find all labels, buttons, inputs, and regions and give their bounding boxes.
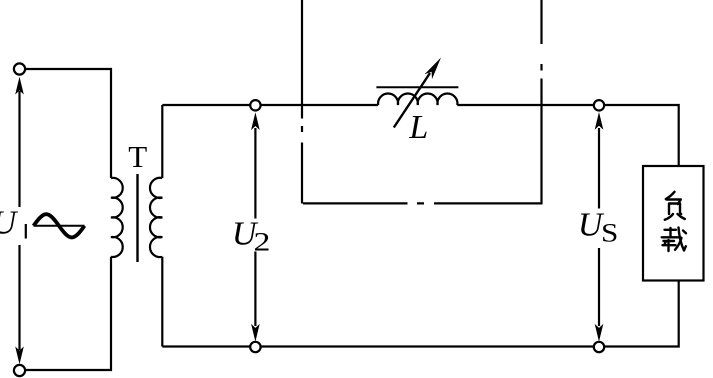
transformer core <box>136 174 138 262</box>
wire: bottom horizontal + up to load <box>162 281 678 347</box>
svg-text:L: L <box>408 109 428 146</box>
US arrowhead up <box>595 112 604 130</box>
load box <box>643 166 704 281</box>
inductor arrow line <box>394 73 430 128</box>
AC sine symbol baseline <box>34 225 85 227</box>
node circle bottom wire left <box>250 342 260 352</box>
inductor adjustable bar <box>376 86 458 88</box>
node circle bottom wire right <box>594 342 604 352</box>
U1 arrow line <box>18 91 20 350</box>
svg-text:T: T <box>128 139 147 174</box>
U2 arrowhead up <box>251 112 260 130</box>
load label char 负 <box>666 192 675 199</box>
wire: top horizontal right of inductor + down to load <box>457 105 678 166</box>
wire: secondary bottom vertical <box>161 257 163 347</box>
inductor arrowhead <box>425 58 441 80</box>
wire: top-left horizontal + down to primary coil <box>25 69 111 178</box>
wire: secondary top vertical <box>161 105 163 178</box>
US arrowhead down <box>595 324 604 342</box>
svg-text:U: U <box>0 205 19 242</box>
label U1 subscript bar <box>25 224 27 239</box>
U2 arrow line <box>254 128 256 326</box>
dash-dot enclosure bottom line <box>303 202 543 204</box>
terminal circle top-left <box>14 63 25 74</box>
U2 arrowhead down <box>251 324 260 342</box>
transformer T secondary winding <box>150 178 162 257</box>
US arrow line <box>598 128 600 326</box>
svg-text:S: S <box>601 219 618 248</box>
svg-text:2: 2 <box>254 227 271 256</box>
AC sine symbol wave <box>34 214 85 237</box>
transformer T primary winding <box>111 178 123 257</box>
inductor L winding <box>378 94 457 105</box>
node circle top wire right <box>594 100 604 110</box>
dash-dot enclosure left line <box>301 0 303 204</box>
node circle top wire left <box>250 100 260 110</box>
load label char 载 <box>665 228 677 237</box>
U1 arrowhead down <box>15 347 24 365</box>
dash-dot enclosure right line <box>540 0 542 204</box>
terminal circle bottom-left <box>14 365 25 376</box>
wire: top horizontal left of inductor <box>162 104 378 106</box>
wire: primary coil bottom to bottom-left wire <box>25 257 111 370</box>
U1 arrowhead up <box>15 77 24 95</box>
